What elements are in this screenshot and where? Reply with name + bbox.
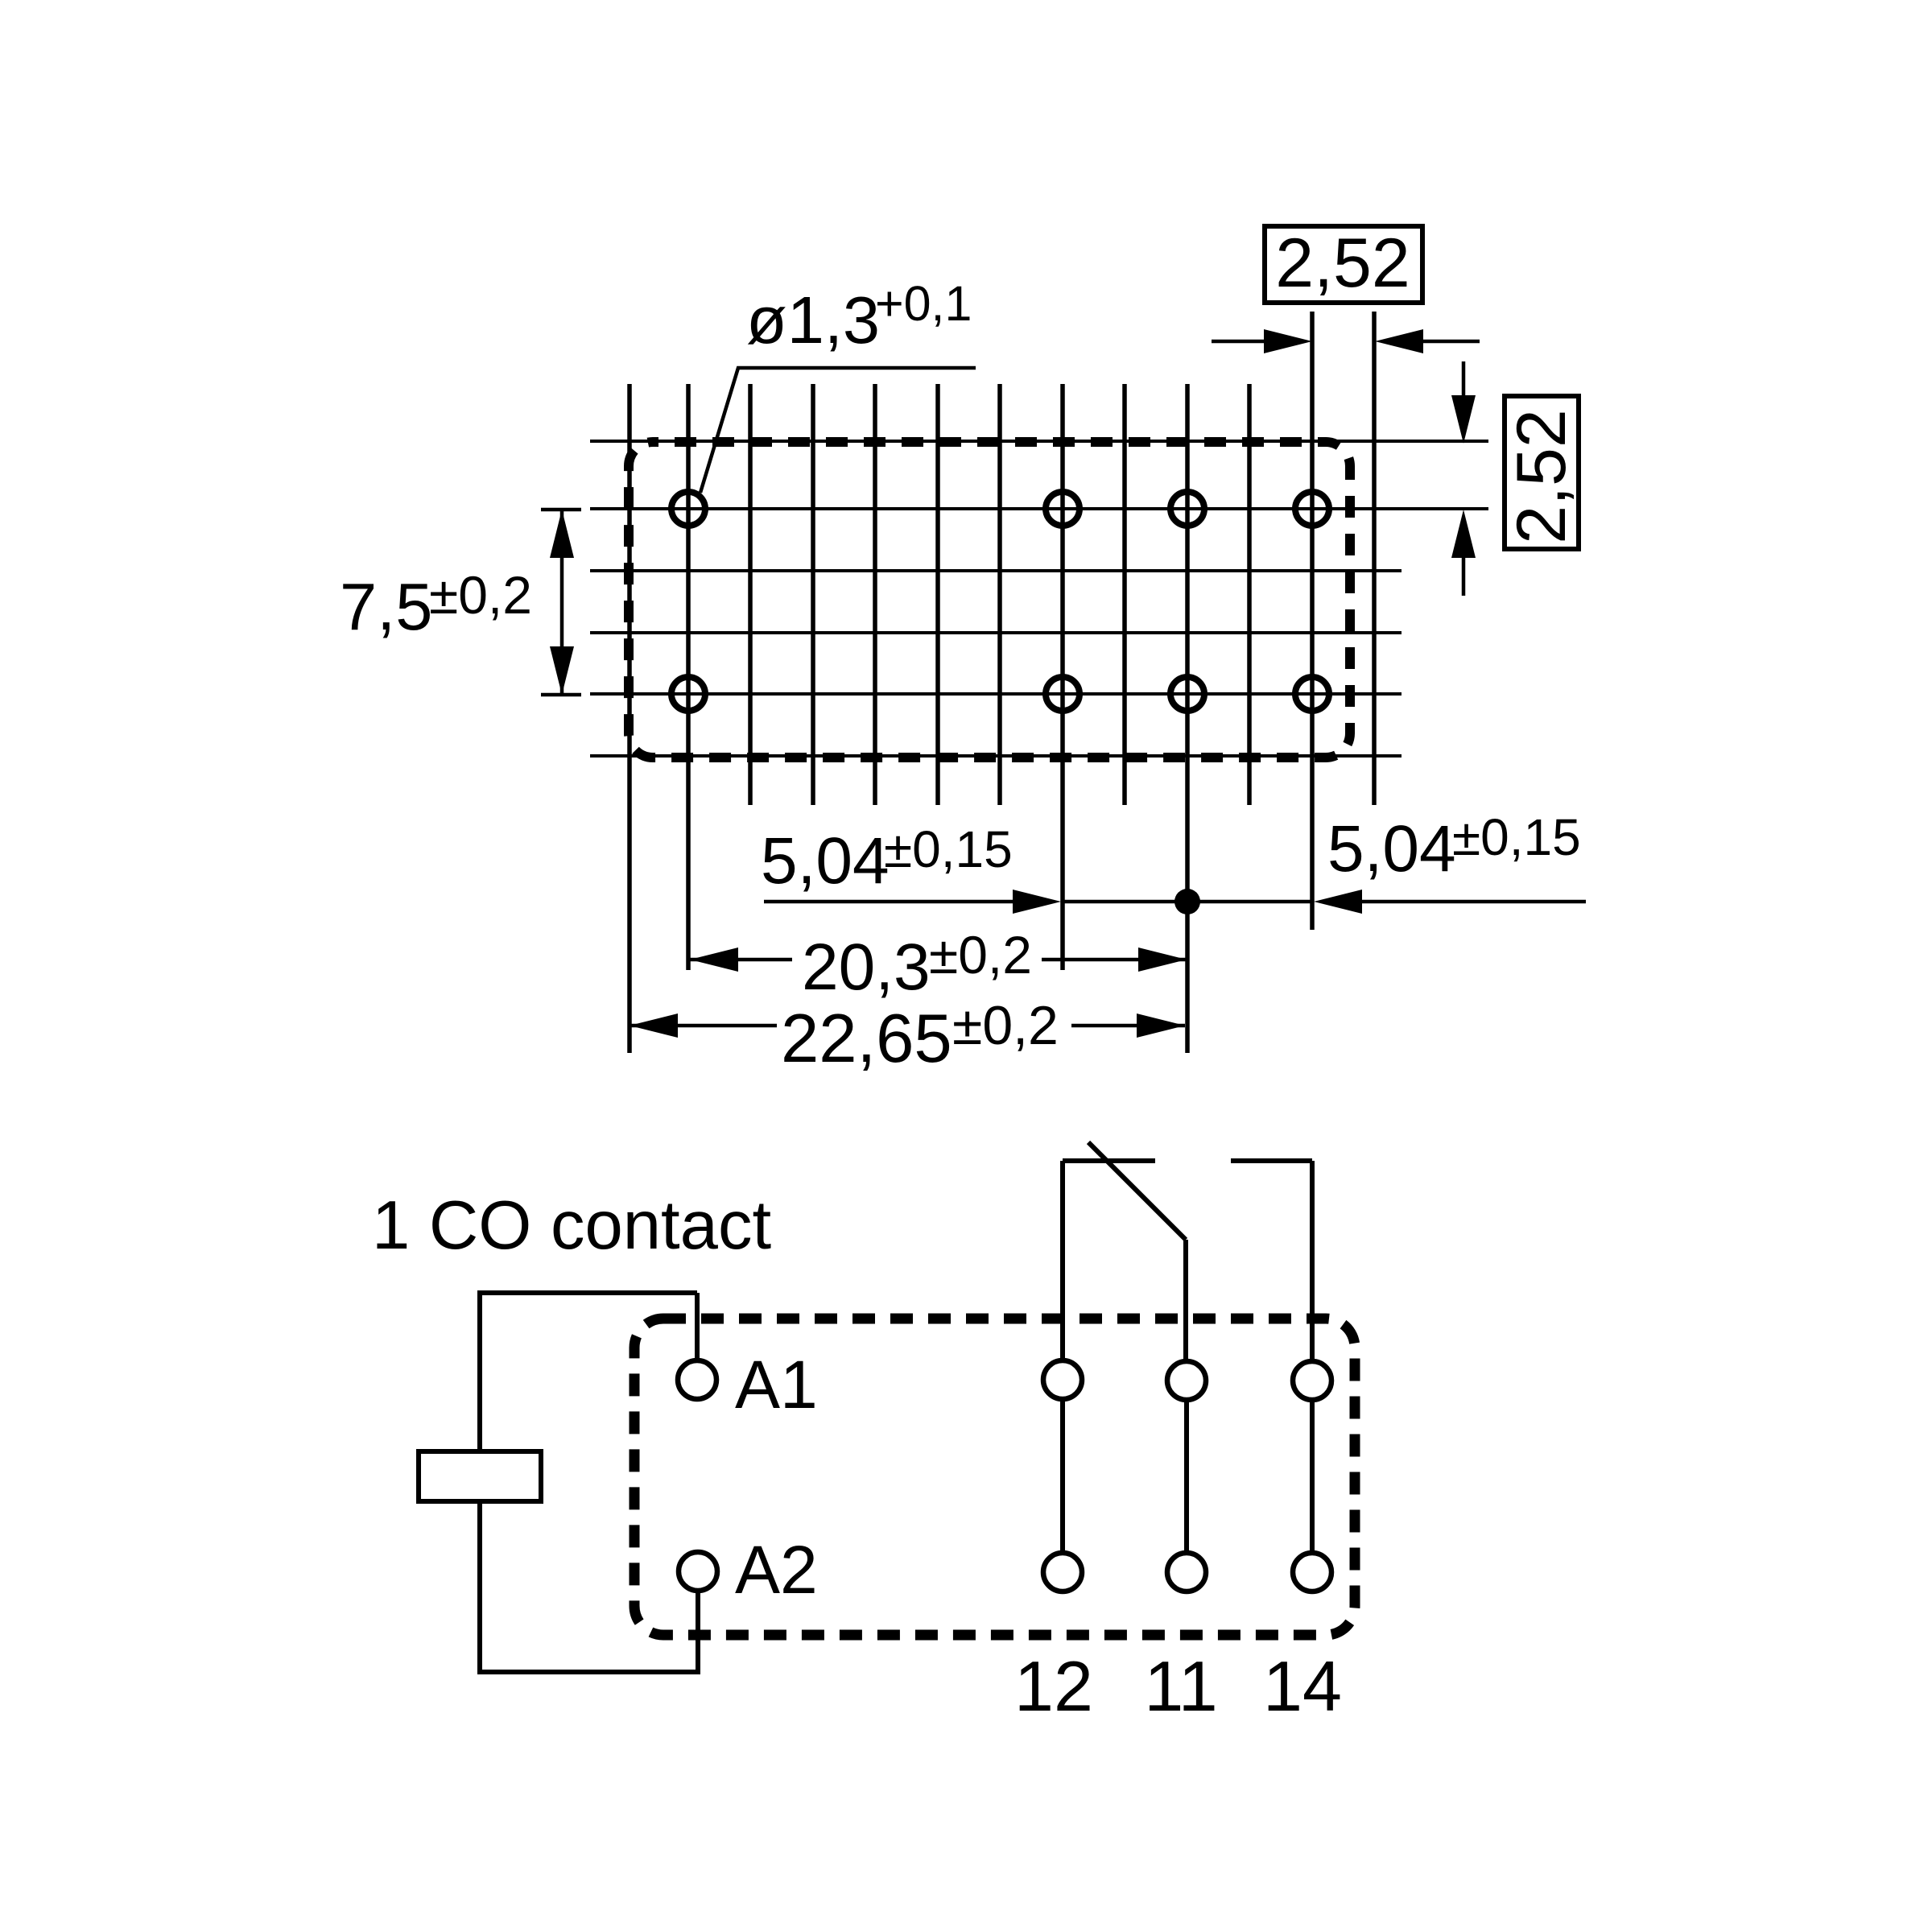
svg-text:12: 12 <box>1014 1646 1093 1726</box>
wire pin 14 lower <box>1310 1400 1315 1553</box>
svg-text:1 CO contact: 1 CO contact <box>372 1187 771 1264</box>
grid row y=548 (top edge line, 2,52 extension) <box>590 440 1488 443</box>
wire pin 11 lower <box>1184 1400 1189 1553</box>
grid column x=1320 (pad column 12 / 5,04 extension line) <box>1060 384 1065 970</box>
svg-text:5,04: 5,04 <box>761 824 890 898</box>
grid column x=782 (left edge / 22,65 extension line) <box>627 384 632 1053</box>
svg-text:2,52: 2,52 <box>1275 225 1410 302</box>
pad 24 (row2 col 1630) <box>1295 677 1329 711</box>
pad A2 (row2 col 855) <box>671 677 705 711</box>
dimension box 2,52 (right, rotated, between rows 548 and 632) <box>1505 396 1579 549</box>
terminal 14 bottom <box>1293 1553 1331 1591</box>
dimension box 2,52 (top, between columns 1630 and 1707) <box>1265 226 1422 303</box>
dimension arrow line (7,5) <box>560 510 564 695</box>
svg-text:ø1,3: ø1,3 <box>746 283 880 357</box>
grid column x=1552 <box>1247 384 1252 805</box>
terminal A1 <box>678 1360 716 1399</box>
svg-text:11: 11 <box>1144 1646 1217 1726</box>
wire coil loop bottom <box>480 1504 698 1672</box>
svg-text:14: 14 <box>1263 1646 1342 1726</box>
terminal 11 top <box>1167 1361 1206 1400</box>
grid column x=1087 <box>873 384 877 805</box>
svg-text:±0,2: ±0,2 <box>429 565 532 625</box>
svg-text:±0,2: ±0,2 <box>929 925 1032 985</box>
node dot at column 1475 on dimension line <box>1174 889 1200 914</box>
relay body outline (schematic, dashed rounded rectangle) <box>634 1319 1355 1635</box>
terminal 12 top <box>1043 1360 1082 1399</box>
dimension 22,65 ±0,2 (columns 782..1475) <box>630 1024 777 1028</box>
dimension tick bottom (7,5) <box>541 693 581 697</box>
grid row y=786 <box>590 631 1402 634</box>
terminal 14 top <box>1293 1361 1331 1400</box>
dimension 20,3 ±0,2 (columns 855..1475) <box>690 958 792 962</box>
grid column x=1475 (pad column 11 / 20,3 + 22,65 extension line) <box>1185 384 1190 1053</box>
terminal A2 <box>679 1552 717 1591</box>
grid column x=1242 <box>997 384 1002 805</box>
grid column x=932 <box>748 384 753 805</box>
pad 11 (row1 col 1475) <box>1170 492 1204 526</box>
contact rail pin 14 <box>1231 1158 1312 1163</box>
grid row y=709 <box>590 569 1402 572</box>
svg-text:A1: A1 <box>735 1347 818 1422</box>
grid column x=1707 (2,52 extension line) <box>1372 312 1377 805</box>
pad A1 (row1 col 855) <box>671 492 705 526</box>
switch blade (CO contact) <box>1088 1142 1186 1240</box>
wire pin 12 lower <box>1060 1399 1065 1553</box>
grid column x=855 (pad column 1 / 20,3 extension line) <box>686 384 691 970</box>
terminal 11 bottom <box>1167 1553 1206 1591</box>
dimension arrow up (2,52 right) <box>1462 558 1466 596</box>
grid column x=1165 <box>935 384 940 805</box>
grid column x=1010 <box>811 384 815 805</box>
wire pin 11 upper <box>1183 1240 1188 1361</box>
dimension arrow right (2,52 top) <box>1419 340 1480 344</box>
svg-text:±0,15: ±0,15 <box>884 820 1013 878</box>
dimension tick top (7,5) <box>541 508 581 512</box>
wire pin 14 upper <box>1310 1161 1315 1361</box>
svg-text:+0,1: +0,1 <box>875 276 972 331</box>
contact rail pin 12 <box>1063 1158 1155 1163</box>
svg-text:5,04: 5,04 <box>1327 812 1456 885</box>
grid row y=632 (pad row 1, 2,52 + 7,5 extension) <box>590 507 1488 510</box>
grid row y=939 (bottom edge line) <box>590 754 1402 758</box>
grid column x=1630 (pad column 14 / 2,52 + 5,04 extension line) <box>1310 312 1315 930</box>
grid column x=1397 <box>1122 384 1127 805</box>
dimension arrow down (2,52 right) <box>1462 361 1466 398</box>
pad 12 (row1 col 1320) <box>1046 492 1080 526</box>
svg-text:7,5: 7,5 <box>340 569 432 644</box>
wire A1 <box>695 1293 700 1360</box>
relay body outline (footprint, dashed rounded rectangle) <box>629 442 1350 758</box>
svg-text:A2: A2 <box>735 1532 818 1608</box>
coil K1 <box>419 1451 541 1501</box>
dimension arrow left (2,52 top) <box>1212 340 1268 344</box>
svg-text:±0,15: ±0,15 <box>1452 808 1581 866</box>
terminal 12 bottom <box>1043 1553 1082 1591</box>
leader line for hole diameter label <box>700 368 976 493</box>
wire coil loop top <box>480 1293 697 1449</box>
svg-text:22,65: 22,65 <box>781 1001 952 1077</box>
pad 14 (row1 col 1630) <box>1295 492 1329 526</box>
svg-text:20,3: 20,3 <box>802 931 931 1004</box>
pad 21 (row2 col 1475) <box>1170 677 1204 711</box>
wire pin 12 upper <box>1060 1161 1065 1360</box>
svg-text:±0,2: ±0,2 <box>952 995 1059 1056</box>
pad 22 (row2 col 1320) <box>1046 677 1080 711</box>
svg-text:2,52: 2,52 <box>1503 409 1580 543</box>
grid row y=862 (pad row 2, 7,5 extension) <box>590 692 1402 696</box>
